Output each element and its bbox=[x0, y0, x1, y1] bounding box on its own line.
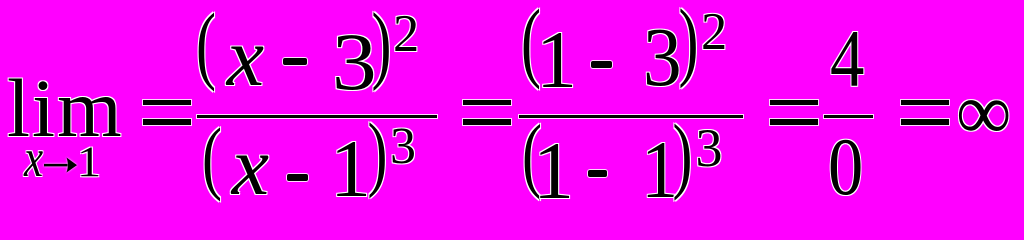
digit 0 denominator bbox=[828, 126, 863, 208]
equals 1 bottom bar bbox=[143, 119, 191, 125]
sub 1 bbox=[77, 141, 101, 184]
equals 4 top bar bbox=[901, 100, 949, 106]
N1 sup 2 bbox=[393, 8, 419, 61]
D2 close paren bbox=[673, 112, 693, 197]
equals 4 bottom bar bbox=[901, 119, 949, 125]
N2 digit 3 bbox=[643, 16, 682, 100]
D1 digit 1 bbox=[330, 128, 371, 210]
sub arrow bbox=[44, 157, 78, 174]
N2 minus bbox=[591, 61, 612, 68]
N2 open paren bbox=[521, 0, 541, 85]
D2 minus bbox=[588, 170, 607, 177]
D1 x bbox=[232, 125, 269, 209]
digit 4 numerator bbox=[830, 18, 864, 100]
infinity bbox=[956, 72, 1011, 153]
D2 digit 1 bbox=[533, 130, 574, 212]
fraction3 bar bbox=[824, 115, 873, 118]
N1 close paren bbox=[372, 0, 392, 87]
D2 open paren bbox=[522, 112, 542, 196]
equals 3 bottom bar bbox=[770, 119, 818, 125]
sub x bbox=[24, 131, 43, 186]
fraction1 bar bbox=[197, 115, 437, 118]
D1 close paren bbox=[368, 111, 388, 194]
N1 open paren bbox=[196, 1, 216, 87]
equals 3 top bar bbox=[770, 100, 818, 106]
D1 sup 3 bbox=[390, 121, 416, 173]
equals 2 top bar bbox=[463, 100, 511, 106]
N1 x bbox=[227, 16, 264, 100]
equals 2 bottom bar bbox=[463, 119, 511, 125]
N2 close paren bbox=[679, 0, 699, 84]
N2 digit 1 bbox=[536, 19, 577, 101]
lim bbox=[7, 67, 124, 150]
D1 open paren bbox=[202, 116, 222, 198]
N1 minus bbox=[283, 58, 307, 65]
N2 sup 2 bbox=[701, 6, 727, 59]
D2 sup 3 bbox=[696, 121, 723, 175]
D1 minus bbox=[287, 174, 308, 181]
D2 digit 1b bbox=[641, 129, 679, 211]
fraction2 bar bbox=[519, 115, 743, 118]
N1 digit 3 bbox=[332, 21, 377, 103]
equals 1 top bar bbox=[143, 100, 191, 106]
